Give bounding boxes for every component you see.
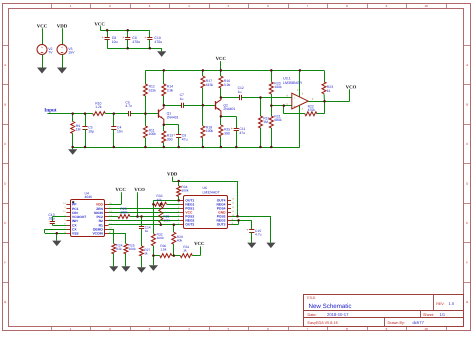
svg-text:4046: 4046 xyxy=(85,195,93,199)
svg-text:Input: Input xyxy=(44,108,57,114)
svg-text:VCC: VCC xyxy=(216,56,227,62)
svg-text:E: E xyxy=(4,221,6,225)
svg-text:LM324ADT: LM324ADT xyxy=(203,190,220,194)
svg-text:15V: 15V xyxy=(68,51,75,55)
svg-text:VCC: VCC xyxy=(115,187,126,193)
svg-text:B: B xyxy=(4,103,6,107)
svg-text:U6: U6 xyxy=(203,186,207,190)
svg-text:Date:: Date: xyxy=(308,313,317,317)
svg-text:40k: 40k xyxy=(177,239,183,243)
svg-text:100k: 100k xyxy=(120,210,128,214)
svg-text:A: A xyxy=(4,63,6,67)
svg-text:+: + xyxy=(102,36,104,40)
svg-text:100k: 100k xyxy=(149,132,157,136)
svg-text:82k: 82k xyxy=(116,247,122,251)
svg-text:1u: 1u xyxy=(180,97,184,101)
svg-text:100k: 100k xyxy=(157,236,165,240)
svg-text:390: 390 xyxy=(224,131,230,135)
svg-text:+: + xyxy=(61,46,63,50)
svg-text:10u: 10u xyxy=(112,40,118,44)
svg-text:LM358NGR: LM358NGR xyxy=(283,81,302,85)
svg-text:VCC: VCC xyxy=(94,21,105,27)
svg-text:VCO: VCO xyxy=(134,187,145,193)
svg-text:New Schematic: New Schematic xyxy=(309,303,352,310)
svg-text:470k: 470k xyxy=(308,108,316,112)
svg-text:.01u: .01u xyxy=(48,217,55,221)
svg-text:100k: 100k xyxy=(206,129,214,133)
svg-text:1k: 1k xyxy=(183,249,187,253)
svg-text:+: + xyxy=(41,46,43,50)
svg-text:Sheet:: Sheet: xyxy=(423,313,434,317)
svg-text:47u: 47u xyxy=(239,131,245,135)
svg-text:100k: 100k xyxy=(129,247,137,251)
svg-text:4.7u: 4.7u xyxy=(255,233,262,237)
svg-text:OUT3: OUT3 xyxy=(217,223,226,227)
svg-text:dch77: dch77 xyxy=(413,320,425,325)
svg-text:A: A xyxy=(466,63,468,67)
svg-text:1M: 1M xyxy=(76,128,81,132)
svg-text:2018-10-17: 2018-10-17 xyxy=(327,312,349,317)
svg-text:2N4401: 2N4401 xyxy=(223,107,235,111)
svg-text:1u: 1u xyxy=(238,90,242,94)
svg-text:10p: 10p xyxy=(88,129,94,133)
svg-text:47u: 47u xyxy=(182,137,188,141)
svg-text:+: + xyxy=(231,127,233,131)
svg-text:+: + xyxy=(246,228,248,232)
svg-text:1.2k: 1.2k xyxy=(95,105,102,109)
svg-text:E: E xyxy=(466,221,468,225)
svg-text:1u: 1u xyxy=(145,229,149,233)
svg-text:1.5k: 1.5k xyxy=(160,248,167,252)
svg-text:615k: 615k xyxy=(206,83,214,87)
svg-text:100k: 100k xyxy=(181,189,189,193)
svg-text:1/1: 1/1 xyxy=(440,312,446,317)
svg-text:VCO: VCO xyxy=(346,84,357,90)
svg-text:1M: 1M xyxy=(263,120,268,124)
svg-text:F: F xyxy=(4,261,6,265)
svg-text:OUT2: OUT2 xyxy=(185,223,194,227)
svg-text:EasyEDA V5.8.16: EasyEDA V5.8.16 xyxy=(308,321,338,325)
svg-text:1k: 1k xyxy=(327,89,331,93)
svg-text:+: + xyxy=(297,88,299,92)
svg-text:10n: 10n xyxy=(117,129,123,133)
svg-text:+: + xyxy=(144,36,146,40)
svg-text:1k: 1k xyxy=(144,251,148,255)
svg-text:B: B xyxy=(466,103,468,107)
svg-text:REV:: REV: xyxy=(436,302,444,306)
svg-text:3.9k: 3.9k xyxy=(167,88,174,92)
svg-text:10: 10 xyxy=(424,327,428,331)
svg-text:Drawn By:: Drawn By: xyxy=(388,321,406,325)
svg-text:VSS: VSS xyxy=(72,232,79,236)
svg-text:470u: 470u xyxy=(154,40,162,44)
svg-text:F: F xyxy=(466,261,468,265)
svg-text:+: + xyxy=(294,104,296,108)
svg-text:40k: 40k xyxy=(156,198,162,202)
svg-text:615k: 615k xyxy=(149,88,157,92)
svg-text:3.9k: 3.9k xyxy=(224,83,231,87)
svg-text:VCC: VCC xyxy=(194,241,205,247)
svg-text:680k: 680k xyxy=(274,118,282,122)
svg-text:1.0: 1.0 xyxy=(449,301,455,306)
svg-text:+: + xyxy=(173,133,175,137)
svg-text:100k: 100k xyxy=(274,85,282,89)
svg-text:390: 390 xyxy=(167,137,173,141)
svg-text:470u: 470u xyxy=(132,40,140,44)
svg-text:VCOIN: VCOIN xyxy=(92,232,103,236)
svg-text:2N4401: 2N4401 xyxy=(167,115,179,119)
svg-text:7V: 7V xyxy=(48,51,53,55)
svg-text:4.7n: 4.7n xyxy=(125,104,132,108)
svg-text:+: + xyxy=(122,36,124,40)
svg-text:TITLE:: TITLE: xyxy=(307,296,317,300)
svg-text:10: 10 xyxy=(424,4,428,8)
